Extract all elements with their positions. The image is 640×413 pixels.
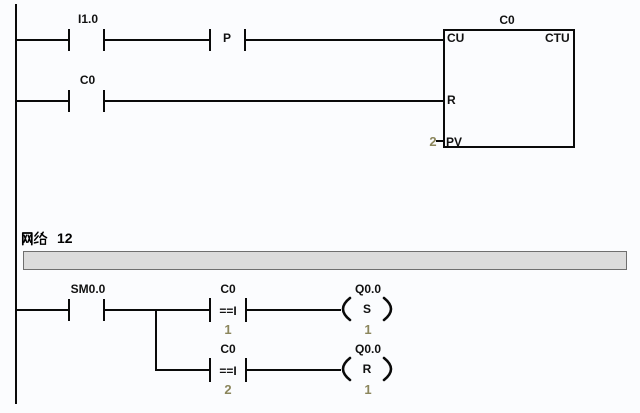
coil S Q0.0 parentheses bbox=[333, 294, 397, 326]
coil S letter bbox=[350, 303, 384, 315]
network 12 header label (网络 drawn as SVG strokes) bbox=[21, 231, 53, 246]
pin label CTU bbox=[545, 32, 570, 44]
compare contact ==I (1) right bar bbox=[245, 298, 247, 322]
pin label R bbox=[447, 94, 456, 106]
contact P right bar bbox=[244, 29, 246, 51]
label C0 (compare 2) bbox=[199, 343, 257, 355]
value 2 under compare 2 bbox=[211, 383, 245, 396]
coil R letter bbox=[350, 363, 384, 375]
label P (edge detect) bbox=[210, 32, 244, 44]
compare contact ==I (2) right bar bbox=[245, 358, 247, 382]
wire rung2 rail to contact C0 bbox=[17, 100, 68, 102]
network number 12 text bbox=[57, 231, 73, 245]
contact P left bar bbox=[209, 29, 211, 51]
label C0 (compare 1) bbox=[199, 283, 257, 295]
wire from compare 2 to R coil bbox=[247, 369, 341, 371]
wire rung3 from SM0.0 to compare contact 1 bbox=[105, 309, 209, 311]
compare operation text ==I (1) bbox=[211, 305, 245, 317]
pin label PV bbox=[446, 136, 462, 148]
wire rung1 from P to counter CU input bbox=[246, 39, 443, 41]
PV input stub wire bbox=[436, 140, 443, 142]
label C0 (box title) bbox=[477, 14, 537, 26]
left power rail bbox=[15, 4, 17, 404]
label I1.0 bbox=[60, 13, 116, 25]
wire rung1 between I1.0 and P contact bbox=[105, 39, 209, 41]
wire rung3 rail to contact SM0.0 bbox=[17, 309, 68, 311]
compare contact ==I (1) left bar bbox=[209, 298, 211, 322]
value 2 at PV bbox=[427, 135, 439, 148]
contact SM0.0 left bar bbox=[68, 299, 70, 321]
value 1 under S coil bbox=[350, 323, 386, 336]
contact SM0.0 right bar bbox=[103, 299, 105, 321]
compare contact ==I (2) left bar bbox=[209, 358, 211, 382]
wire branch2 to compare contact 2 bbox=[156, 369, 209, 371]
wire rung1 rail to contact I1.0 bbox=[17, 39, 68, 41]
label Q0.0 (S coil) bbox=[340, 283, 396, 295]
branch vertical wire bbox=[155, 309, 157, 371]
network title bar bbox=[23, 251, 627, 270]
contact C0 left bar bbox=[68, 90, 70, 112]
counter C0 box (CTU) bbox=[443, 29, 575, 148]
contact C0 right bar bbox=[103, 90, 105, 112]
value 1 under compare 1 bbox=[211, 323, 245, 336]
pin label CU bbox=[447, 32, 464, 44]
label C0 (contact) bbox=[60, 74, 115, 86]
value 1 under R coil bbox=[350, 383, 386, 396]
compare operation text ==I (2) bbox=[211, 365, 245, 377]
contact I1.0 right bar bbox=[103, 29, 105, 51]
coil R Q0.0 parentheses bbox=[333, 354, 397, 386]
label Q0.0 (R coil) bbox=[340, 343, 396, 355]
wire rung2 from C0 to counter R input bbox=[105, 100, 443, 102]
label SM0.0 bbox=[58, 283, 118, 295]
wire from compare 1 to S coil bbox=[247, 309, 341, 311]
contact I1.0 left bar bbox=[68, 29, 70, 51]
